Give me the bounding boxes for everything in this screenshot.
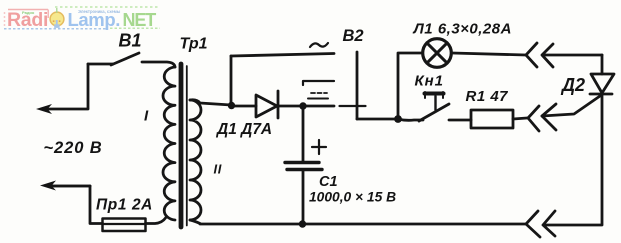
svg-text:I: I <box>144 108 149 125</box>
junction dots <box>228 102 402 228</box>
button Kn1 bar <box>425 92 444 96</box>
capacitor C1 top lead <box>302 107 305 161</box>
wire fuse to primary <box>146 218 166 224</box>
switch B1 right lead <box>142 62 175 67</box>
lamp L1 cross <box>427 43 447 63</box>
bottom connector plug <box>543 211 602 236</box>
logo pink top line <box>8 9 48 11</box>
DC symbol solid line <box>308 98 328 100</box>
bottom connector jack <box>526 211 540 237</box>
wire D2 to mid plug diagonal <box>542 96 600 116</box>
capacitor C1 plus sign <box>312 140 326 154</box>
button Kn1 blade <box>419 104 449 121</box>
diode D1 triangle <box>256 95 277 117</box>
switch B1 blade <box>111 53 139 65</box>
logo pink left dashes <box>4 12 6 26</box>
switch B2 blade <box>356 52 359 119</box>
button Kn1 stem <box>434 96 436 110</box>
logo blue dashed underline <box>4 28 106 30</box>
mains top arrowhead <box>36 104 52 114</box>
fuse Pr1 body <box>103 219 146 232</box>
button Kn1 bar serifs <box>425 92 443 98</box>
svg-text:R1 47: R1 47 <box>466 88 509 105</box>
lamp L1 circle <box>423 39 452 68</box>
wire button to R1 <box>449 119 471 122</box>
transformer Tp1 secondary winding <box>190 100 201 220</box>
node diode-capacitor <box>299 102 306 109</box>
transformer Tp1 primary winding <box>163 67 175 220</box>
logo green dashed underline <box>110 27 160 29</box>
fuse Pr1 mid line <box>103 223 146 225</box>
svg-text:Л1 6,3×0,28А: Л1 6,3×0,28А <box>413 21 512 38</box>
wire mains top riser <box>87 64 90 108</box>
svg-text:Д2: Д2 <box>560 75 585 95</box>
logo RadioLamp.NET <box>4 7 160 31</box>
svg-text:Пр1 2А: Пр1 2А <box>96 197 153 214</box>
svg-text:Кн1: Кн1 <box>415 73 444 90</box>
logo lamp icon bulb <box>50 12 64 26</box>
transformer core line 2 <box>186 66 188 226</box>
svg-text:NET: NET <box>123 10 157 30</box>
switch B2 tilde AC symbol <box>310 43 328 47</box>
switch B2 fixed contact line <box>303 81 334 85</box>
wire B2 common <box>357 118 398 121</box>
wire fuse riser <box>90 186 103 224</box>
diode D2 cathode bar <box>590 93 612 96</box>
mains bottom arrow shaft <box>52 185 90 188</box>
switch B2 contact tick <box>340 105 366 107</box>
top connector jack <box>526 43 537 67</box>
wire mains top shaft <box>46 108 88 111</box>
svg-text:С1: С1 <box>319 174 338 190</box>
wire down to diode D2 <box>601 55 604 74</box>
diode D1 cathode bar <box>277 91 280 118</box>
wire lamp to top connector <box>452 53 526 55</box>
wire diode to node <box>279 105 303 108</box>
svg-text:В1: В1 <box>119 31 142 51</box>
top connector plug <box>542 44 602 67</box>
svg-text:В2: В2 <box>343 27 364 45</box>
mid connector jack <box>528 106 539 131</box>
wire riser to AC contact <box>230 56 233 105</box>
wire riser to lamp <box>398 53 422 119</box>
svg-text:1000,0 × 15 В: 1000,0 × 15 В <box>309 190 396 205</box>
svg-text:II: II <box>214 162 222 177</box>
svg-text:~220 В: ~220 В <box>44 139 103 157</box>
wire DC contact <box>303 105 334 108</box>
capacitor C1 bottom lead <box>302 171 305 224</box>
wire bottom rail <box>200 223 526 226</box>
DC symbol dashed line <box>311 92 327 94</box>
diode D2 triangle <box>591 74 614 93</box>
svg-text:Тр1: Тр1 <box>180 36 208 53</box>
wire R1 to mid jack <box>513 118 527 119</box>
svg-text:Radi: Radi <box>7 9 48 31</box>
arrowheads <box>36 104 56 191</box>
wire secondary bottom lead <box>190 220 200 224</box>
node lamp-button <box>394 115 402 123</box>
svg-text:Д1 Д7А: Д1 Д7А <box>215 121 272 138</box>
switch B1 left lead <box>88 63 113 66</box>
svg-text:Lamp.: Lamp. <box>68 9 120 30</box>
fuse arrow shaft <box>50 185 90 188</box>
mid connector plug <box>542 104 556 130</box>
resistor R1 body <box>471 110 513 128</box>
capacitor C1 bottom plate <box>287 168 322 171</box>
button Kn1 left wire <box>398 119 423 120</box>
transformer core line 1 <box>179 64 184 227</box>
node capacitor-rail <box>299 220 306 227</box>
mains bottom arrowhead <box>40 181 56 191</box>
wire AC contact <box>231 54 334 57</box>
wire secondary top lead <box>190 100 231 105</box>
capacitor C1 top plate <box>285 161 319 164</box>
wire to diode D1 <box>231 105 256 108</box>
logo green dashed top line <box>55 6 158 8</box>
wire right edge <box>601 94 604 224</box>
node secondary-AC-diode <box>228 102 235 109</box>
circuit strokes <box>46 39 614 237</box>
